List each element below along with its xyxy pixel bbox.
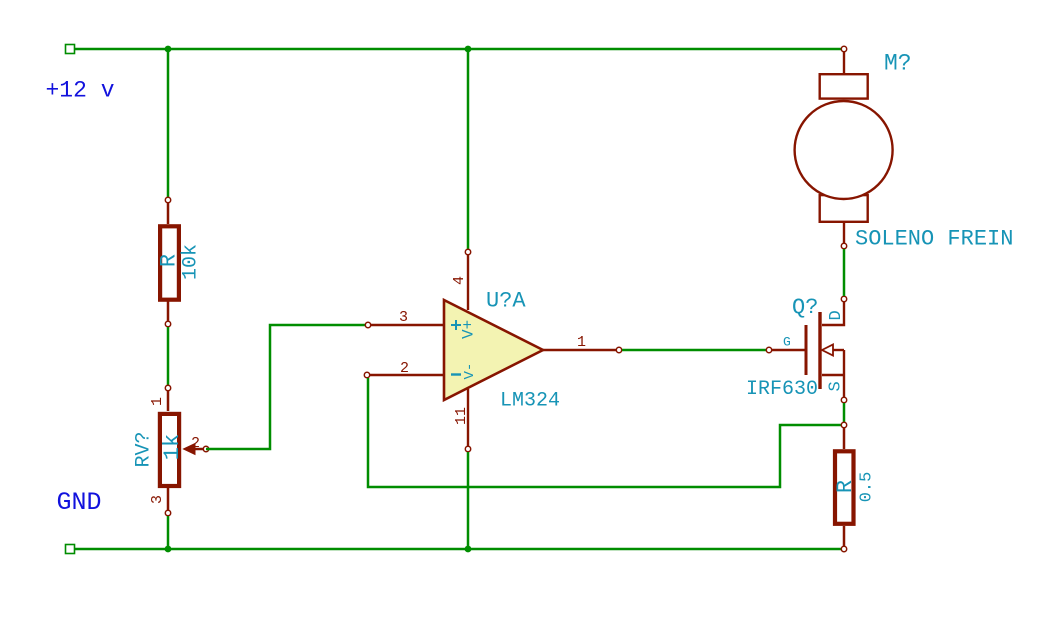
motor M? solenoid symbol <box>795 52 893 243</box>
svg-text:M?: M? <box>884 51 912 77</box>
wire R 10k to RV pot <box>167 327 170 388</box>
svg-text:1: 1 <box>149 397 166 406</box>
pin 3 wire of op-amp <box>371 324 444 326</box>
wire motor to MOSFET drain <box>843 249 846 296</box>
wire +12V top rail <box>70 48 844 51</box>
node motor top pin end circle <box>841 46 846 51</box>
node RV pin 3 end circle <box>165 510 170 515</box>
node R 10k pin 2 end circle <box>165 321 170 326</box>
svg-text:11: 11 <box>453 407 470 425</box>
node op-amp pin 2 end circle <box>364 372 369 377</box>
wire top rail to R 10k <box>167 49 170 200</box>
wiper arrow of RV <box>184 444 196 455</box>
node op-amp pin 3 end circle <box>365 322 370 327</box>
node R 10k pin 1 end circle <box>165 197 170 202</box>
svg-text:Q?: Q? <box>792 295 818 320</box>
pin 1 wire of op-amp output <box>543 349 616 351</box>
node MOSFET gate pin end circle <box>766 347 771 352</box>
minus marker at inverting input <box>451 373 461 375</box>
junction GND rail / RV branch <box>165 546 172 553</box>
node GND unconnected end square <box>66 545 75 554</box>
svg-text:GND: GND <box>57 488 102 517</box>
transistor Q1 IRF630 MOSFET <box>772 302 844 397</box>
junction top rail / R1 branch <box>165 46 172 53</box>
junction top rail / op-amp V+ branch <box>465 46 472 53</box>
wire RV pin 3 to GND rail <box>167 516 170 549</box>
svg-text:+12 v: +12 v <box>46 78 115 104</box>
node op-amp pin 11 end circle <box>465 446 470 451</box>
svg-text:2: 2 <box>191 435 200 452</box>
wire GND bottom rail <box>70 548 844 551</box>
junction GND rail / op-amp V- branch <box>465 546 472 553</box>
potentiometer RV? 1k <box>160 391 206 510</box>
node MOSFET source pin end circle <box>841 397 846 402</box>
svg-text:3: 3 <box>149 495 166 504</box>
body diode arrow of Q1 <box>822 345 833 356</box>
node RV pin 2 end circle <box>203 446 208 451</box>
svg-text:10k: 10k <box>180 244 203 280</box>
svg-text:V+: V+ <box>460 320 478 339</box>
resistor R 10k <box>160 203 179 321</box>
wire top rail to op-amp pin 4 <box>467 49 470 252</box>
svg-text:4: 4 <box>451 276 468 285</box>
resistor R 0.5 <box>835 428 854 546</box>
node MOSFET drain pin end circle <box>841 296 846 301</box>
node op-amp pin 4 end circle <box>465 249 470 254</box>
svg-text:2: 2 <box>400 360 409 377</box>
svg-text:0.5: 0.5 <box>858 472 877 503</box>
op-amp U?A body <box>444 300 543 400</box>
wire MOSFET source to R 0.5 <box>843 403 846 422</box>
wire op-amp pin 2 feedback to R 0.5 top <box>368 378 841 487</box>
node R 0.5 bottom pin end circle <box>841 546 846 551</box>
pin 11 wire of op-amp <box>467 389 469 446</box>
pin 2 wire of op-amp <box>370 374 444 376</box>
svg-text:V-: V- <box>462 363 478 380</box>
node +12V unconnected end square <box>66 45 75 54</box>
svg-text:S: S <box>827 381 846 391</box>
svg-text:SOLENO FREIN: SOLENO FREIN <box>855 227 1013 252</box>
wire op-amp pin 11 to GND rail <box>467 452 470 549</box>
svg-text:3: 3 <box>399 309 408 326</box>
svg-text:G: G <box>783 335 791 350</box>
svg-text:IRF630: IRF630 <box>746 378 818 401</box>
node RV pin 1 end circle <box>165 385 170 390</box>
svg-text:1: 1 <box>577 334 586 351</box>
node R 0.5 top pin end circle <box>841 422 846 427</box>
svg-text:R: R <box>157 254 182 267</box>
node motor bottom pin end circle <box>841 243 846 248</box>
plus marker at non-inverting input <box>451 320 461 330</box>
svg-text:D: D <box>827 310 846 320</box>
wire op-amp output to MOSFET gate <box>622 349 766 352</box>
node op-amp pin 1 end circle <box>616 347 621 352</box>
svg-text:U?A: U?A <box>486 289 526 314</box>
svg-text:1k: 1k <box>160 434 185 460</box>
svg-text:R: R <box>833 480 858 493</box>
svg-text:RV?: RV? <box>133 431 156 467</box>
wire RV wiper to op-amp pin 3 <box>206 325 365 449</box>
svg-text:LM324: LM324 <box>500 390 560 413</box>
pin 4 wire of op-amp <box>467 255 469 310</box>
